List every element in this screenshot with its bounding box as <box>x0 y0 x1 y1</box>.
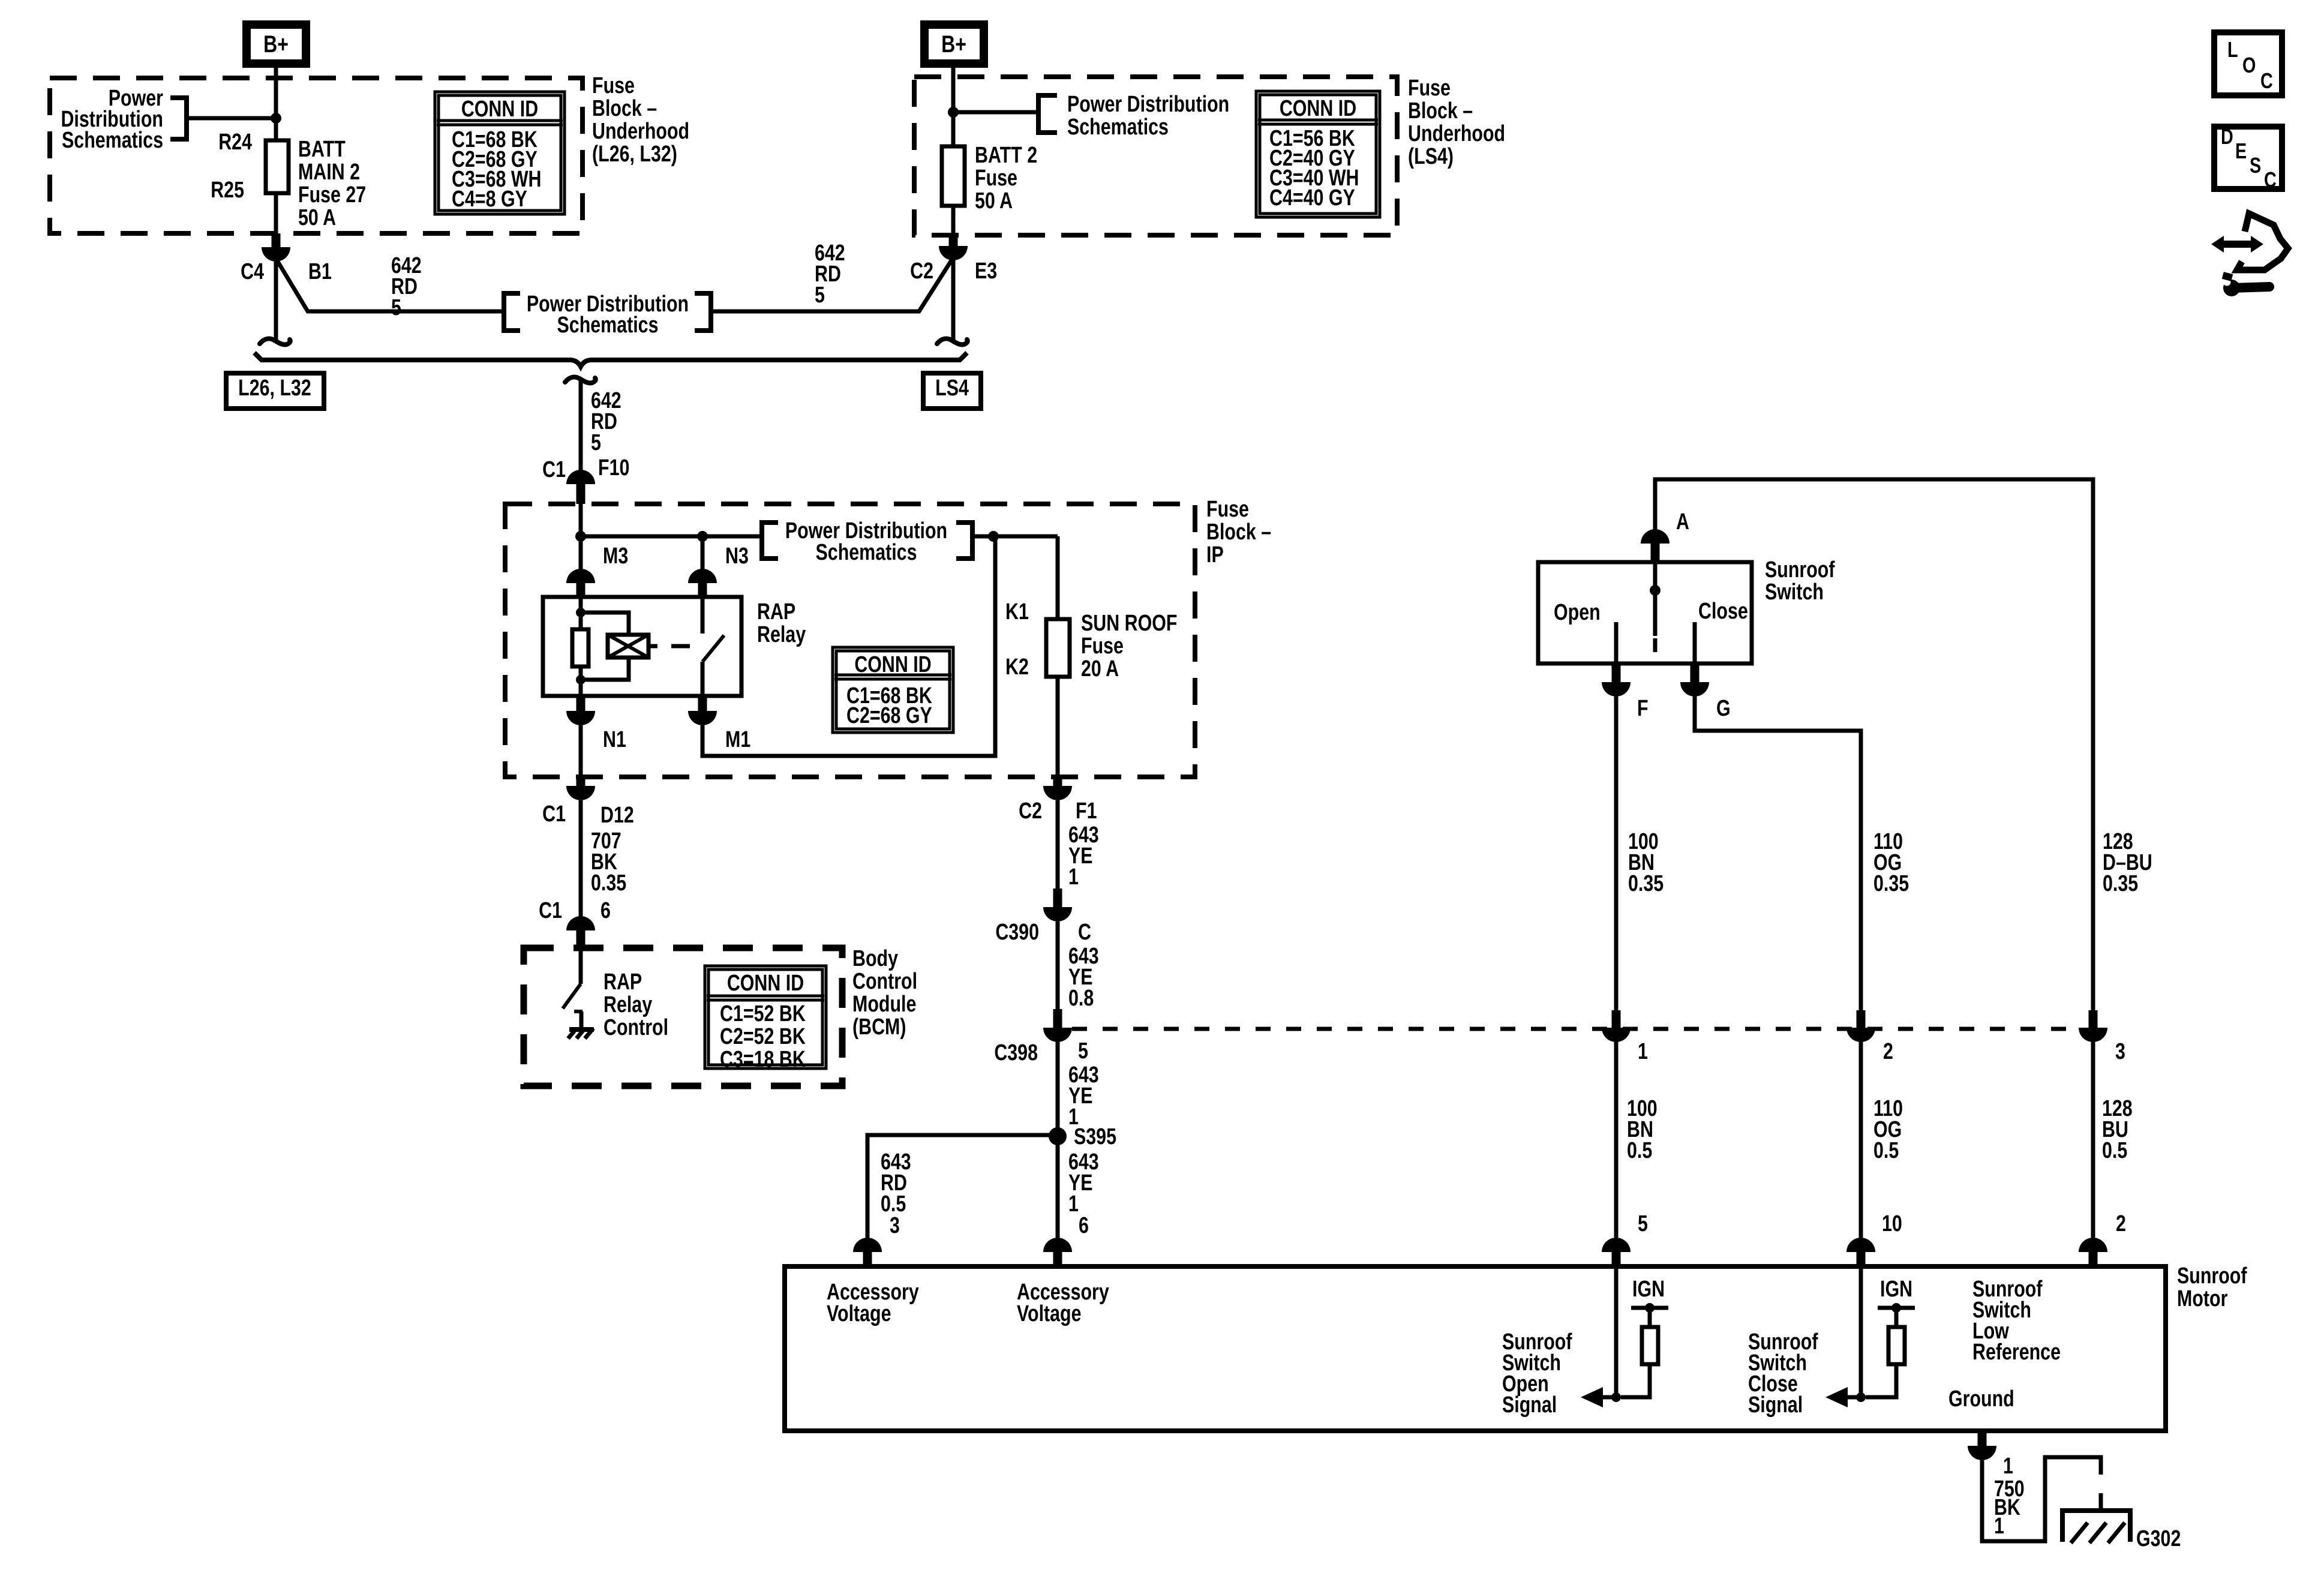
svg-text:Ground: Ground <box>1948 1386 2014 1412</box>
svg-text:A: A <box>1676 509 1689 535</box>
svg-text:N3: N3 <box>725 544 749 569</box>
close contact <box>1693 622 1697 664</box>
bracket power distribution schematics (left) <box>170 98 187 139</box>
svg-text:20 A: 20 A <box>1081 656 1119 682</box>
connector C1/D12 <box>577 777 585 786</box>
motor pin 10 internal wire <box>1859 1266 1863 1397</box>
wire C390 to C398 <box>1056 921 1060 1028</box>
wire G to C398 pin2 <box>1695 697 1861 1010</box>
svg-text:RAP: RAP <box>603 969 642 995</box>
CONN ID table underhood LS4 <box>1256 91 1380 217</box>
bracket [ IP power dist <box>762 523 778 559</box>
hook end right wire <box>937 339 968 345</box>
wire B1 diagonal to power distribution <box>278 262 502 311</box>
CONN ID table IP <box>833 647 953 733</box>
squiggle below brace <box>565 377 596 383</box>
connector motor pin 5 <box>1602 1238 1631 1252</box>
sunroof switch box <box>1538 562 1752 664</box>
connector motor pin 10 <box>1846 1238 1875 1252</box>
svg-text:C2: C2 <box>910 259 933 284</box>
fuse BATT MAIN 2 Fuse 27 50A <box>274 118 278 143</box>
svg-text:1: 1 <box>1068 864 1079 890</box>
svg-text:C4: C4 <box>241 259 264 284</box>
svg-text:Voltage: Voltage <box>1017 1301 1082 1326</box>
battery feed B+ terminal 1 <box>247 25 306 64</box>
svg-text:C1: C1 <box>542 801 566 827</box>
connector A <box>1641 529 1670 544</box>
svg-text:3: 3 <box>2115 1039 2125 1064</box>
connector motor pin 2 <box>2079 1238 2107 1252</box>
bus brace <box>254 353 967 367</box>
svg-text:Control: Control <box>852 969 917 994</box>
wire F10 into block <box>579 504 583 570</box>
connector M1 <box>698 696 707 711</box>
svg-text:D: D <box>2221 124 2233 149</box>
svg-text:E3: E3 <box>975 259 997 284</box>
connector F <box>1612 664 1621 682</box>
svg-text:50 A: 50 A <box>298 205 336 230</box>
connector N1 <box>577 696 585 711</box>
connector C2/E3 <box>949 233 958 246</box>
wrench icon <box>2233 282 2274 293</box>
CONN ID table BCM <box>705 966 826 1072</box>
SUN ROOF fuse <box>1046 619 1070 677</box>
vehicle direction icon <box>2237 214 2288 270</box>
open contact <box>1614 622 1619 664</box>
svg-text:C4=40 GY: C4=40 GY <box>1269 185 1355 211</box>
C398 dashed bus <box>1072 1027 2079 1031</box>
svg-text:Block –: Block – <box>1206 520 1271 545</box>
svg-text:LS4: LS4 <box>935 376 969 401</box>
svg-text:Signal: Signal <box>1748 1392 1803 1418</box>
wire C4 down to bus <box>274 260 278 340</box>
RAP relay box <box>543 597 741 696</box>
svg-text:Block –: Block – <box>1408 98 1473 124</box>
svg-text:E: E <box>2235 139 2247 163</box>
DESC icon box <box>2214 127 2282 189</box>
svg-text:Fuse: Fuse <box>1081 634 1124 659</box>
splice S395 <box>1049 1127 1067 1145</box>
wire bracket to node <box>187 116 276 121</box>
connector C398 pin 1 <box>1612 1010 1621 1028</box>
svg-text:K1: K1 <box>1005 599 1029 625</box>
svg-text:0.5: 0.5 <box>1627 1138 1652 1163</box>
svg-text:IP: IP <box>1206 542 1224 568</box>
svg-text:M3: M3 <box>603 544 628 569</box>
motor pin 5 internal wire <box>1614 1266 1619 1397</box>
svg-text:BATT: BATT <box>298 137 346 162</box>
svg-text:C: C <box>2260 68 2273 93</box>
wire N1 to C1/D12 <box>579 725 583 778</box>
svg-text:0.35: 0.35 <box>1628 871 1664 896</box>
wire node to bracket (right unit) <box>953 110 1036 115</box>
arrow sunroof switch close signal <box>1840 1395 1861 1400</box>
svg-text:5: 5 <box>815 283 825 308</box>
svg-text:C2=68 GY: C2=68 GY <box>846 703 932 728</box>
svg-text:B1: B1 <box>308 259 332 284</box>
power dist horizontal wire in IP <box>581 535 760 539</box>
svg-text:Switch: Switch <box>1765 580 1824 605</box>
svg-text:G302: G302 <box>2136 1526 2181 1551</box>
svg-text:(LS4): (LS4) <box>1408 144 1454 169</box>
connector C398 pin 3 <box>2089 1010 2098 1028</box>
svg-text:C1: C1 <box>542 457 566 482</box>
BCM switch blade <box>563 984 581 1008</box>
svg-text:0.8: 0.8 <box>1068 986 1094 1011</box>
switch pole <box>1653 562 1658 636</box>
svg-text:K2: K2 <box>1005 655 1029 680</box>
svg-text:CONN ID: CONN ID <box>727 971 804 996</box>
svg-text:Open: Open <box>1554 600 1601 625</box>
BCM switch wire <box>579 948 583 984</box>
svg-text:10: 10 <box>1882 1211 1902 1236</box>
svg-text:Sunroof: Sunroof <box>1765 557 1835 583</box>
svg-text:Signal: Signal <box>1502 1392 1557 1418</box>
fuse block IP dashed box <box>505 504 1195 777</box>
connector C4/B1 <box>272 233 281 247</box>
svg-text:Schematics: Schematics <box>557 313 659 338</box>
wire S395 branch to pin 3 <box>867 1135 1058 1238</box>
wire E3 down to bus <box>951 259 956 340</box>
connector pin 6 motor <box>1043 1238 1072 1252</box>
svg-text:Motor: Motor <box>2177 1286 2227 1311</box>
relay coil feed wires <box>579 597 583 629</box>
connector M3 <box>566 569 595 583</box>
connector C398/5 <box>1053 1009 1062 1028</box>
svg-text:L: L <box>2227 37 2238 62</box>
svg-text:Close: Close <box>1698 599 1748 624</box>
connector C1/6 <box>566 916 595 930</box>
connector N3 <box>688 569 717 583</box>
connector C398 pin 2 <box>1857 1010 1866 1028</box>
node dot on B+ feed <box>271 113 281 124</box>
svg-text:Reference: Reference <box>1972 1340 2061 1365</box>
svg-text:C390: C390 <box>995 920 1039 945</box>
svg-text:C3=18 BK: C3=18 BK <box>720 1047 806 1072</box>
svg-text:IGN: IGN <box>1632 1277 1665 1302</box>
svg-text:S395: S395 <box>1074 1124 1116 1149</box>
LOC icon box <box>2214 32 2282 95</box>
bracket ] middle power distribution <box>695 293 711 331</box>
svg-text:1: 1 <box>1994 1514 2004 1539</box>
bracket ] IP power dist <box>956 523 972 559</box>
ground symbol G302 <box>2060 1508 2133 1513</box>
svg-text:0.35: 0.35 <box>2103 871 2138 896</box>
mechanical link dash <box>671 644 690 649</box>
svg-text:1: 1 <box>1638 1039 1648 1064</box>
double arrow <box>2211 236 2263 253</box>
connector G <box>1691 664 1700 682</box>
CONN ID table underhood L26,L32 <box>435 92 565 214</box>
wire to BCM <box>579 800 583 917</box>
svg-text:Sunroof: Sunroof <box>2177 1263 2247 1289</box>
svg-text:Fuse 27: Fuse 27 <box>298 182 366 208</box>
relay resistor <box>572 629 588 667</box>
wire B+2 to fuse block <box>951 64 956 148</box>
svg-text:2: 2 <box>1883 1039 1893 1064</box>
svg-text:D12: D12 <box>600 803 634 828</box>
svg-text:L26, L32: L26, L32 <box>238 376 311 401</box>
connector C1/F10 <box>566 470 595 484</box>
svg-text:MAIN 2: MAIN 2 <box>298 160 360 185</box>
svg-text:F: F <box>1637 696 1649 721</box>
svg-text:5: 5 <box>391 295 401 320</box>
svg-text:2: 2 <box>2116 1211 2126 1236</box>
svg-text:C: C <box>2264 167 2277 192</box>
svg-text:M1: M1 <box>725 727 750 752</box>
svg-text:Underhood: Underhood <box>1408 121 1505 146</box>
wire M1 loop to power dist <box>702 536 995 756</box>
svg-text:1: 1 <box>1068 1191 1079 1217</box>
svg-text:SUN ROOF: SUN ROOF <box>1081 611 1177 636</box>
svg-text:CONN ID: CONN ID <box>854 652 931 677</box>
svg-text:6: 6 <box>600 898 611 923</box>
wire brace to F10 <box>579 380 583 470</box>
svg-text:6: 6 <box>1079 1213 1089 1238</box>
node dot N3 <box>697 531 708 542</box>
wire C398 to S395 <box>1056 1042 1060 1136</box>
wire C2 diagonal to power distribution <box>713 260 951 311</box>
wire bracket to sunroof fuse <box>975 535 1058 539</box>
label L26, L32 box <box>226 373 324 409</box>
wire ground to G302 <box>1982 1457 2101 1541</box>
svg-text:O: O <box>2242 53 2256 77</box>
svg-text:CONN ID: CONN ID <box>1280 96 1356 121</box>
svg-text:F10: F10 <box>598 455 629 481</box>
BCM switch lower contact <box>574 1010 582 1013</box>
svg-text:Relay: Relay <box>603 992 652 1017</box>
connector C2/F1 <box>1053 777 1062 786</box>
connector pin 3 motor <box>853 1238 882 1252</box>
svg-text:Schematics: Schematics <box>1067 115 1169 140</box>
svg-text:5: 5 <box>591 430 601 455</box>
svg-text:S: S <box>2250 153 2261 178</box>
wire N3 drop <box>701 536 705 570</box>
svg-text:Body: Body <box>852 946 898 971</box>
svg-text:Module: Module <box>852 992 916 1017</box>
svg-text:R24: R24 <box>218 130 252 155</box>
node dot on B+2 feed <box>948 107 959 118</box>
bracket power distribution schematics (right unit) <box>1038 95 1057 133</box>
bracket [ middle power distribution <box>504 293 520 331</box>
wire F to C398 pin1 <box>1614 697 1619 1010</box>
hook end left wire <box>260 339 290 345</box>
svg-text:C1: C1 <box>539 898 562 923</box>
svg-text:0.35: 0.35 <box>591 870 626 896</box>
svg-text:Underhood: Underhood <box>592 119 689 144</box>
wire pin1 to motor pin 5 <box>1614 1042 1619 1238</box>
svg-text:Fuse: Fuse <box>975 166 1017 191</box>
svg-text:F1: F1 <box>1076 798 1097 824</box>
arrow sunroof switch open signal <box>1596 1395 1616 1400</box>
svg-text:C2: C2 <box>1019 798 1042 824</box>
wire pin2 to motor pin 10 <box>1859 1042 1863 1238</box>
svg-text:Fuse: Fuse <box>1408 76 1451 101</box>
fuse BATT 2 Fuse 50A <box>942 146 965 206</box>
wire down to SUN ROOF fuse <box>1056 536 1060 619</box>
svg-text:50 A: 50 A <box>975 188 1013 214</box>
wire S395 to pin 6 <box>1056 1136 1060 1238</box>
svg-text:Schematics: Schematics <box>62 128 163 153</box>
connector ground pin 1 <box>1978 1431 1987 1446</box>
svg-text:Schematics: Schematics <box>816 540 917 565</box>
wire pin3 to motor pin 2 <box>2091 1042 2095 1238</box>
wire F1 to C390 <box>1056 800 1060 907</box>
sunroof motor box <box>785 1266 2166 1431</box>
BCM dashed box <box>524 948 842 1086</box>
svg-text:B+: B+ <box>263 31 289 58</box>
svg-text:5: 5 <box>1638 1211 1648 1236</box>
svg-text:IGN: IGN <box>1880 1277 1912 1302</box>
svg-text:Voltage: Voltage <box>827 1301 891 1326</box>
svg-text:Power Distribution: Power Distribution <box>1067 92 1229 117</box>
svg-text:Relay: Relay <box>757 622 806 647</box>
fuse block underhood (LS4) dashed box <box>914 77 1397 235</box>
relay switch <box>701 597 705 634</box>
svg-text:(L26, L32): (L26, L32) <box>592 142 677 167</box>
svg-text:Control: Control <box>603 1015 668 1040</box>
svg-text:Fuse: Fuse <box>1206 497 1249 522</box>
svg-text:G: G <box>1716 696 1731 721</box>
svg-text:1: 1 <box>2003 1454 2013 1479</box>
svg-text:N1: N1 <box>603 727 626 752</box>
relay coil (box with X) <box>608 635 648 658</box>
svg-text:0.5: 0.5 <box>1873 1138 1899 1163</box>
svg-text:0.35: 0.35 <box>1873 871 1909 896</box>
svg-text:(BCM): (BCM) <box>852 1014 906 1040</box>
node dot on fuse feed <box>988 531 999 542</box>
svg-text:C398: C398 <box>994 1040 1038 1065</box>
BCM internal ground <box>569 1027 594 1032</box>
battery feed B+ terminal 2 <box>924 25 984 64</box>
svg-text:CONN ID: CONN ID <box>461 97 538 122</box>
svg-text:R25: R25 <box>211 178 244 203</box>
svg-text:3: 3 <box>890 1213 900 1238</box>
wire B+1 to fuse block <box>274 64 278 142</box>
connector C390/C <box>1053 888 1062 907</box>
svg-text:Block –: Block – <box>592 96 657 121</box>
fuse block underhood (L26,L32) dashed box <box>50 78 582 233</box>
svg-text:C2=52 BK: C2=52 BK <box>720 1024 806 1049</box>
svg-text:B+: B+ <box>941 31 966 58</box>
svg-text:5: 5 <box>1078 1038 1088 1064</box>
svg-text:C1=52 BK: C1=52 BK <box>720 1001 806 1026</box>
node dot M3 <box>575 531 586 542</box>
svg-text:C: C <box>1078 920 1091 945</box>
svg-text:0.5: 0.5 <box>2102 1138 2127 1163</box>
wire sunroof switch A to low reference <box>1655 479 2093 1010</box>
svg-text:BATT 2: BATT 2 <box>975 143 1037 168</box>
svg-text:C4=8 GY: C4=8 GY <box>452 187 527 212</box>
svg-text:Fuse: Fuse <box>592 73 635 98</box>
label LS4 box <box>923 373 981 409</box>
svg-text:RAP: RAP <box>757 599 795 625</box>
